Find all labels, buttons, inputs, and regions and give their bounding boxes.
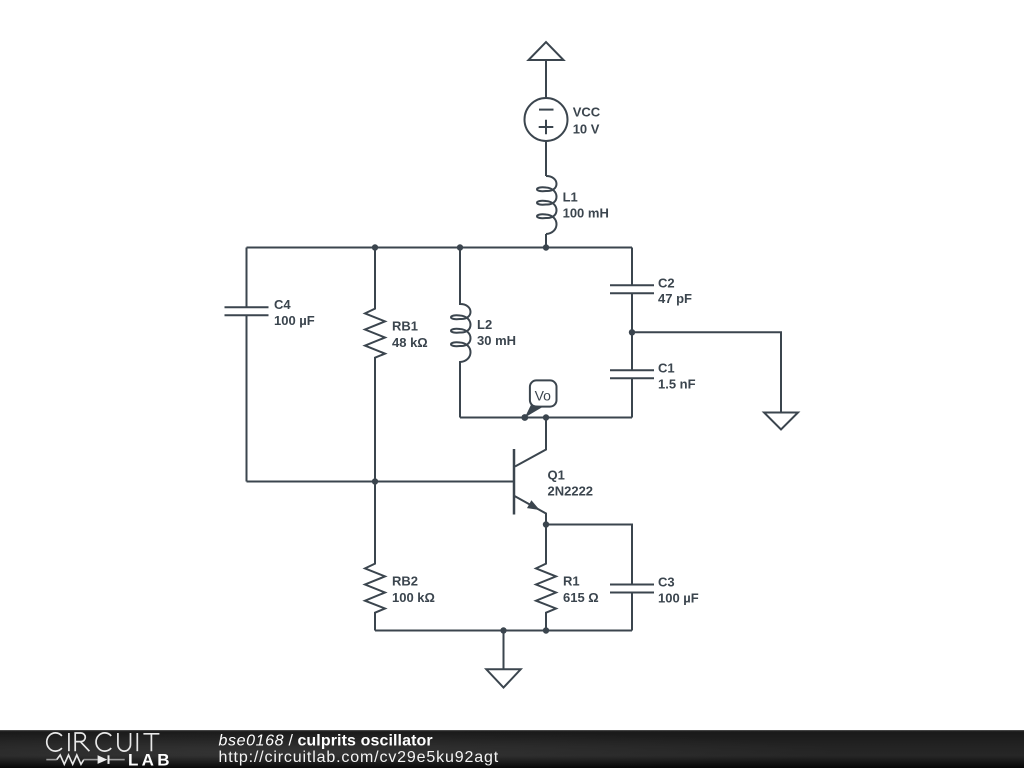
wire tank bottom — [460, 417, 632, 419]
logo letter I1 — [68, 733, 70, 751]
svg-text:30 mH: 30 mH — [477, 333, 516, 348]
logo letter T — [143, 734, 159, 751]
voltage source V1 VCC — [525, 98, 568, 141]
ground right — [764, 413, 798, 430]
logo wire after diode — [110, 759, 125, 761]
inductor L1 — [537, 176, 557, 234]
logo wire to diode — [84, 759, 98, 761]
footer url text — [219, 749, 500, 766]
svg-text:L1: L1 — [563, 190, 578, 205]
label Q1 2N2222 — [548, 468, 594, 499]
svg-text:L2: L2 — [477, 317, 492, 332]
label L2 30 mH — [477, 317, 516, 348]
svg-text:RB1: RB1 — [392, 319, 418, 334]
wire bottom rail — [375, 630, 632, 632]
svg-text:100 mH: 100 mH — [563, 206, 609, 221]
label RB2 100 kOhm — [392, 574, 435, 606]
junction dot emitter — [543, 521, 549, 527]
logo diode — [98, 755, 110, 764]
wire V1 to L1 — [545, 141, 547, 176]
junction dot node C2 C1 output — [629, 329, 635, 335]
svg-text:2N2222: 2N2222 — [548, 484, 594, 499]
transistor Q1 emitter arrow — [527, 500, 540, 510]
junction dot bottom ground — [500, 627, 506, 633]
junction dot bottom R1 — [543, 627, 549, 633]
resistor RB2 — [365, 482, 385, 631]
logo LAB text — [128, 750, 173, 768]
label VCC 10 V — [573, 104, 601, 136]
transistor Q1 emitter — [515, 496, 547, 525]
svg-text:615 Ω: 615 Ω — [563, 590, 599, 605]
junction dot top rail L2 — [457, 244, 463, 250]
svg-text:Q1: Q1 — [548, 468, 565, 483]
svg-text:C1: C1 — [658, 361, 675, 376]
svg-text:LAB: LAB — [128, 750, 173, 768]
svg-text:100 µF: 100 µF — [658, 591, 699, 606]
logo letter I2 — [136, 733, 138, 751]
footer bar — [0, 730, 1024, 768]
wire emitter to C3 — [546, 525, 632, 585]
svg-text:1.5 nF: 1.5 nF — [658, 377, 696, 392]
svg-text:100 µF: 100 µF — [274, 313, 315, 328]
logo letter U — [118, 733, 131, 751]
svg-text:100 kΩ: 100 kΩ — [392, 590, 435, 605]
svg-text:R1: R1 — [563, 574, 580, 589]
logo letter C1 — [47, 733, 62, 751]
ground bottom — [486, 669, 520, 687]
svg-text:Vo: Vo — [535, 388, 552, 404]
wire top rail — [247, 247, 633, 249]
capacitor C1 — [610, 332, 654, 417]
node flag Vo — [521, 380, 556, 421]
junction dot base RB — [372, 478, 378, 484]
wire base — [247, 481, 515, 483]
svg-text:bse0168 / culprits oscillator: bse0168 / culprits oscillator — [219, 733, 433, 750]
capacitor C2 — [610, 248, 654, 333]
transistor Q1 base bar — [513, 449, 516, 515]
resistor RB1 — [365, 248, 385, 482]
svg-text:http://circuitlab.com/cv29e5ku: http://circuitlab.com/cv29e5ku92agt — [219, 749, 500, 766]
capacitor C3 — [610, 585, 654, 631]
svg-text:C4: C4 — [274, 297, 291, 312]
svg-text:VCC: VCC — [573, 104, 601, 119]
label C4 100 uF — [274, 297, 315, 328]
svg-text:47 pF: 47 pF — [658, 291, 692, 306]
footer title text — [219, 733, 433, 750]
inductor L2 — [451, 248, 471, 418]
label R1 615 Ohm — [563, 574, 599, 606]
wire L1 to top rail — [545, 234, 547, 248]
svg-text:48 kΩ: 48 kΩ — [392, 335, 428, 350]
junction dot top rail L1 — [543, 244, 549, 250]
wire output node to ground — [632, 332, 781, 412]
label C3 100 uF — [658, 575, 699, 606]
power flag VCC — [529, 42, 564, 98]
label C1 1.5 nF — [658, 361, 696, 392]
label C2 47 pF — [658, 276, 692, 307]
wire collector — [515, 418, 546, 467]
wire to ground bottom — [503, 631, 505, 670]
svg-text:RB2: RB2 — [392, 574, 418, 589]
svg-text:C2: C2 — [658, 276, 675, 291]
label L1 100 mH — [563, 190, 609, 221]
junction dot tank bottom collector — [543, 414, 549, 420]
junction dot top rail RB1 — [372, 244, 378, 250]
svg-text:C3: C3 — [658, 575, 675, 590]
label Vo — [535, 388, 552, 404]
logo resistor zigzag — [46, 759, 56, 761]
label RB1 48 kOhm — [392, 319, 428, 351]
logo letter R — [75, 733, 89, 751]
capacitor C4 — [225, 248, 269, 482]
logo letter C2 — [96, 733, 111, 751]
resistor R1 — [536, 525, 556, 631]
svg-text:10 V: 10 V — [573, 121, 600, 136]
